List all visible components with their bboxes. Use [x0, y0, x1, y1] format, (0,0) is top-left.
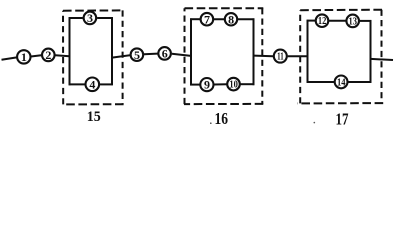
box16 right bus wire	[253, 18, 255, 85]
node 8	[225, 13, 237, 25]
node 6	[158, 47, 171, 60]
node 1	[17, 50, 30, 63]
svg-text:10: 10	[229, 80, 238, 91]
svg-text:7: 7	[204, 12, 210, 26]
box15 top branch wire right	[97, 17, 113, 19]
node 10	[227, 78, 240, 91]
svg-text:6: 6	[162, 47, 168, 61]
wire node9-node10	[214, 83, 226, 85]
box15 bottom branch wire left	[69, 83, 85, 85]
wire node12-node13	[329, 20, 346, 22]
wire output stub	[371, 59, 394, 60]
box17 left bus wire	[307, 20, 309, 83]
box16 bottom branch wire left	[190, 84, 199, 86]
box16 top branch wire left	[190, 18, 200, 20]
wire node7-node8	[214, 18, 224, 20]
node 14	[335, 76, 348, 89]
wire node11 to box17 bus	[288, 55, 308, 57]
node 11	[274, 50, 287, 63]
wire node6 to box16 bus	[172, 54, 191, 56]
node 2	[42, 49, 55, 62]
node 5	[131, 48, 144, 61]
wire box15 to node5	[112, 55, 130, 57]
node 3	[84, 12, 97, 25]
node 4	[86, 78, 100, 92]
box15 bottom branch wire right	[100, 83, 113, 85]
node 9	[200, 78, 213, 91]
svg-text:8: 8	[228, 12, 234, 26]
box16 left bus wire	[190, 18, 192, 85]
svg-text:15: 15	[87, 109, 101, 125]
wire node1-node2	[31, 55, 41, 56]
box15 right bus wire	[111, 17, 113, 85]
svg-text:11: 11	[277, 52, 284, 63]
box17 top branch wire right	[360, 20, 372, 22]
box16 bottom branch wire right	[240, 83, 254, 85]
subsystem box 16 dashed border	[184, 8, 263, 104]
svg-text:16: 16	[215, 109, 229, 126]
node 13	[346, 15, 359, 28]
speck near label 17	[314, 122, 316, 124]
svg-text:9: 9	[204, 78, 210, 92]
svg-text:12: 12	[318, 16, 327, 27]
svg-text:3: 3	[87, 11, 93, 25]
box15 left bus wire	[69, 17, 71, 85]
svg-text:17: 17	[336, 110, 349, 126]
wire input stub	[2, 57, 17, 59]
svg-text:1: 1	[21, 50, 27, 64]
wire node5-node6	[144, 53, 158, 56]
svg-text:4: 4	[89, 77, 95, 91]
box17 right bus wire	[370, 20, 372, 83]
svg-text:13: 13	[349, 16, 358, 27]
box17 bottom branch wire left	[307, 81, 334, 83]
subsystem box 15 dashed border	[63, 10, 124, 104]
svg-text:14: 14	[337, 77, 346, 88]
box15 top branch wire left	[69, 17, 83, 19]
wire node2 to box15 bus	[55, 55, 69, 56]
node 12	[316, 14, 329, 27]
subsystem box 17 dashed border	[298, 10, 384, 104]
speck near label 16	[210, 122, 212, 124]
wire box16 to node11	[254, 55, 274, 58]
svg-text:2: 2	[45, 48, 51, 62]
svg-text:5: 5	[134, 48, 140, 62]
box16 top branch wire right	[238, 18, 255, 20]
node 7	[201, 13, 214, 26]
box17 bottom branch wire right	[348, 81, 371, 83]
box17 top branch wire left	[307, 20, 316, 22]
